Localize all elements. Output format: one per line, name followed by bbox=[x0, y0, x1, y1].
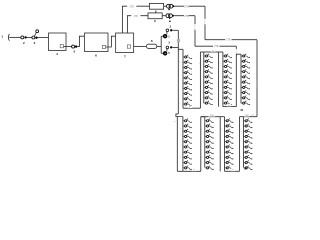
wire U tie L1-L2 bottom bbox=[177, 170, 201, 172]
load U2-2 bbox=[204, 59, 213, 64]
wire feeder B seg1 bbox=[131, 15, 148, 17]
feeder B cable label 2 bbox=[184, 14, 189, 17]
load U1-4 bbox=[183, 70, 192, 75]
wire U4 outer bbox=[235, 46, 237, 106]
machine M1 bbox=[163, 34, 167, 38]
load U4-10 bbox=[241, 101, 250, 106]
wire tie U2-U3 top bbox=[204, 51, 219, 53]
wire L3 outer bbox=[219, 117, 221, 172]
block 4 bbox=[49, 33, 67, 51]
wire L4 outer bbox=[239, 117, 241, 172]
wire box4 to S5 bbox=[64, 46, 72, 48]
wire U tie U1-U2 bottom bbox=[183, 107, 200, 109]
series element box A bbox=[149, 3, 163, 9]
wire L4 top tie bbox=[240, 116, 244, 118]
wire U tie U3-U4 bottom bbox=[223, 106, 236, 108]
wire machine link vertical bbox=[160, 36, 162, 53]
load U3-7 bbox=[223, 85, 232, 90]
load L4-9 bbox=[244, 160, 253, 165]
load L3-5 bbox=[225, 139, 234, 144]
load U1-6 bbox=[183, 81, 192, 86]
main bus node tag bbox=[177, 39, 180, 42]
transformer T-B bbox=[166, 14, 170, 18]
load L2-8 bbox=[205, 155, 214, 160]
block 7 bbox=[116, 33, 134, 53]
wire U2 spine bbox=[203, 52, 205, 103]
U3-U4 cable label bbox=[227, 104, 231, 106]
machine M5 bbox=[163, 51, 167, 55]
load U2-4 bbox=[204, 69, 213, 74]
wire L3 spine bbox=[224, 117, 226, 172]
svg-text:2TB: 2TB bbox=[214, 46, 219, 48]
load L4-5 bbox=[244, 139, 253, 144]
wire L1 outer bbox=[176, 117, 178, 172]
node arrow into bus bbox=[169, 21, 172, 23]
load L3-10 bbox=[225, 166, 234, 171]
load U3-10 bbox=[223, 101, 232, 106]
load U1-7 bbox=[183, 86, 192, 91]
load L4-6 bbox=[244, 145, 253, 150]
wire U2 outer bbox=[199, 52, 201, 108]
load U1-5 bbox=[183, 76, 192, 81]
load U4-7 bbox=[241, 85, 250, 90]
switch SW5 bbox=[166, 46, 169, 49]
wire S3 to box4 bbox=[38, 36, 49, 38]
block 6 bbox=[85, 33, 109, 52]
wire feeder B seg3 bbox=[174, 15, 195, 17]
load L1-3 bbox=[183, 129, 192, 134]
switch S3 with earth blade bbox=[32, 36, 35, 39]
series element box B bbox=[148, 13, 162, 19]
load U4-6 bbox=[241, 80, 250, 85]
svg-text:10: 10 bbox=[244, 167, 247, 171]
transformer T-A bbox=[167, 4, 171, 8]
load U1-1 bbox=[183, 55, 192, 60]
load U4-5 bbox=[241, 75, 250, 80]
wire U3 outer bbox=[218, 52, 220, 107]
load L2-5 bbox=[205, 139, 214, 144]
wire feeder B drop bbox=[194, 16, 196, 47]
U2-U3 cable label bbox=[211, 49, 215, 51]
feeder A cable label 2 bbox=[184, 5, 189, 8]
load U4-4 bbox=[241, 69, 250, 74]
load U1-10 bbox=[183, 102, 192, 107]
wire S5 to box6 bbox=[77, 36, 84, 46]
wire feeder A seg1 bbox=[127, 5, 150, 7]
load L1-9 bbox=[183, 160, 192, 165]
wire M1 to SW1 bbox=[166, 32, 168, 35]
element C8 (stadium) bbox=[146, 44, 156, 48]
load U2-9 bbox=[204, 96, 213, 101]
wire feeder B seg2 bbox=[162, 15, 166, 17]
load L4-8 bbox=[244, 155, 253, 160]
load L3-8 bbox=[225, 155, 234, 160]
load L3-9 bbox=[225, 160, 234, 165]
load L2-2 bbox=[205, 124, 214, 129]
wire L2 top tie bbox=[201, 116, 205, 118]
svg-text:2TB: 2TB bbox=[210, 115, 214, 117]
load L3-7 bbox=[225, 150, 234, 155]
wire feeder A seg2 bbox=[164, 5, 167, 7]
load U2-8 bbox=[204, 90, 213, 95]
wire source to S2 bbox=[9, 36, 21, 38]
wire feeder B east run bbox=[195, 45, 236, 47]
load U4-3 bbox=[241, 64, 250, 69]
load L3-4 bbox=[225, 134, 234, 139]
wire box7 to C8 bbox=[134, 45, 147, 47]
svg-text:2TB: 2TB bbox=[245, 115, 249, 117]
U1-U2 cable label bbox=[188, 106, 192, 108]
feeder A node label bbox=[203, 19, 207, 24]
wire feeder B riser bbox=[127, 16, 131, 33]
load L4-7 bbox=[244, 150, 253, 155]
wire M5 to SW5 bbox=[166, 49, 168, 52]
wire L4 spine bbox=[243, 117, 245, 168]
load L3-1 bbox=[225, 119, 234, 124]
load L4-1 bbox=[244, 119, 253, 124]
load U2-1 bbox=[204, 54, 213, 59]
feeder A cable label bbox=[127, 5, 136, 8]
L4 cable label bbox=[244, 114, 250, 116]
load L1-4 bbox=[183, 134, 192, 139]
load L2-1 bbox=[205, 119, 214, 124]
transformer T-A load arrow bbox=[168, 8, 170, 9]
load L1-7 bbox=[183, 150, 192, 155]
transformer T-B load arrow bbox=[169, 16, 171, 19]
load L1-2 bbox=[183, 124, 192, 129]
wire C8 to link bbox=[157, 45, 161, 47]
wire L1 spine bbox=[182, 117, 184, 172]
load U4-9 bbox=[241, 96, 250, 101]
load L3-2 bbox=[225, 124, 234, 129]
wire main bus vertical bbox=[177, 30, 179, 114]
U4 node label bbox=[235, 49, 238, 54]
load U3-8 bbox=[223, 90, 232, 95]
L3-L4 cable label bbox=[231, 169, 235, 171]
load U4-2 bbox=[241, 59, 250, 64]
wire box6 to box7 bbox=[106, 36, 116, 47]
load L1-10 bbox=[183, 166, 192, 171]
feeder B cable label bbox=[131, 14, 140, 17]
wire SW5 to main bbox=[172, 46, 178, 48]
wire stub to M5 bbox=[161, 52, 163, 54]
switch S2 bbox=[21, 36, 24, 39]
load L2-7 bbox=[205, 150, 214, 155]
wire U4 top tie bbox=[236, 53, 241, 55]
load U2-7 bbox=[204, 85, 213, 90]
load L3-6 bbox=[225, 145, 234, 150]
load U3-4 bbox=[223, 69, 232, 74]
wire U4 spine bbox=[240, 54, 242, 103]
wire stub to M1 bbox=[161, 35, 163, 37]
load U3-3 bbox=[223, 64, 232, 69]
wire L3 top tie bbox=[220, 116, 224, 118]
svg-text:10: 10 bbox=[240, 108, 243, 112]
load U2-6 bbox=[204, 80, 213, 85]
wire S2 to S3 bbox=[27, 36, 32, 38]
load U3-5 bbox=[223, 75, 232, 80]
wire feeder A drop bbox=[204, 6, 206, 40]
load U4-1 bbox=[241, 54, 250, 59]
load L3-3 bbox=[225, 129, 234, 134]
switch S5 bbox=[72, 45, 75, 48]
wire L2 spine bbox=[204, 117, 206, 168]
wire feeder A riser bbox=[122, 6, 127, 33]
feeder B node label bbox=[193, 24, 197, 30]
wire feeder A seg3 bbox=[175, 5, 205, 7]
wire tie L2-L3 top bbox=[201, 116, 220, 118]
wire feeder A east run bbox=[205, 39, 257, 41]
load L2-3 bbox=[205, 129, 214, 134]
load L1-5 bbox=[183, 139, 192, 144]
load U2-10 bbox=[204, 101, 213, 106]
load U1-3 bbox=[183, 65, 192, 70]
load L2-10 bbox=[205, 166, 214, 171]
svg-text:2TB: 2TB bbox=[184, 16, 189, 18]
load L4-4 bbox=[244, 134, 253, 139]
wire SW1 to main bbox=[172, 29, 178, 31]
load L4-2 bbox=[244, 124, 253, 129]
load L1-8 bbox=[183, 155, 192, 160]
load U3-2 bbox=[223, 59, 232, 64]
load L4-10 bbox=[244, 166, 253, 171]
wire U1 spine bbox=[182, 49, 184, 108]
load U2-5 bbox=[204, 75, 213, 80]
L1-L2 cable label bbox=[192, 169, 196, 171]
load L1-6 bbox=[183, 145, 192, 150]
svg-text:2TB: 2TB bbox=[184, 6, 189, 8]
feeder A cable label 3 bbox=[225, 38, 231, 41]
load U3-6 bbox=[223, 80, 232, 85]
switch SW1 bbox=[166, 29, 169, 32]
load L2-9 bbox=[205, 160, 214, 165]
wire main bus jog bbox=[176, 114, 183, 117]
load L2-6 bbox=[205, 145, 214, 150]
wire U1 top tie bbox=[178, 48, 183, 50]
load U3-1 bbox=[223, 54, 232, 59]
load U3-9 bbox=[223, 96, 232, 101]
load U2-3 bbox=[204, 64, 213, 69]
wire U2 top tie bbox=[200, 51, 203, 53]
feeder B cable label 3 bbox=[213, 45, 219, 48]
load U4-8 bbox=[241, 90, 250, 95]
wire U tie L3-L4 bottom bbox=[225, 170, 240, 172]
svg-text:2TB: 2TB bbox=[134, 16, 139, 18]
wire U3 spine bbox=[222, 52, 224, 107]
load U1-8 bbox=[183, 91, 192, 96]
wire tie L4-right top bbox=[244, 116, 258, 118]
wire U3 top tie bbox=[219, 51, 223, 53]
svg-text:2TB: 2TB bbox=[226, 40, 231, 42]
load U1-2 bbox=[183, 60, 192, 65]
svg-text:2TB: 2TB bbox=[129, 6, 134, 8]
load L1-1 bbox=[183, 119, 192, 124]
wire L2 outer bbox=[200, 117, 202, 172]
L2-L3 cable label bbox=[208, 114, 215, 116]
external source terminal bbox=[8, 34, 9, 41]
load U1-9 bbox=[183, 97, 192, 102]
load L2-4 bbox=[205, 134, 214, 139]
wire right outer drop bbox=[256, 40, 258, 117]
load L4-3 bbox=[244, 129, 253, 134]
